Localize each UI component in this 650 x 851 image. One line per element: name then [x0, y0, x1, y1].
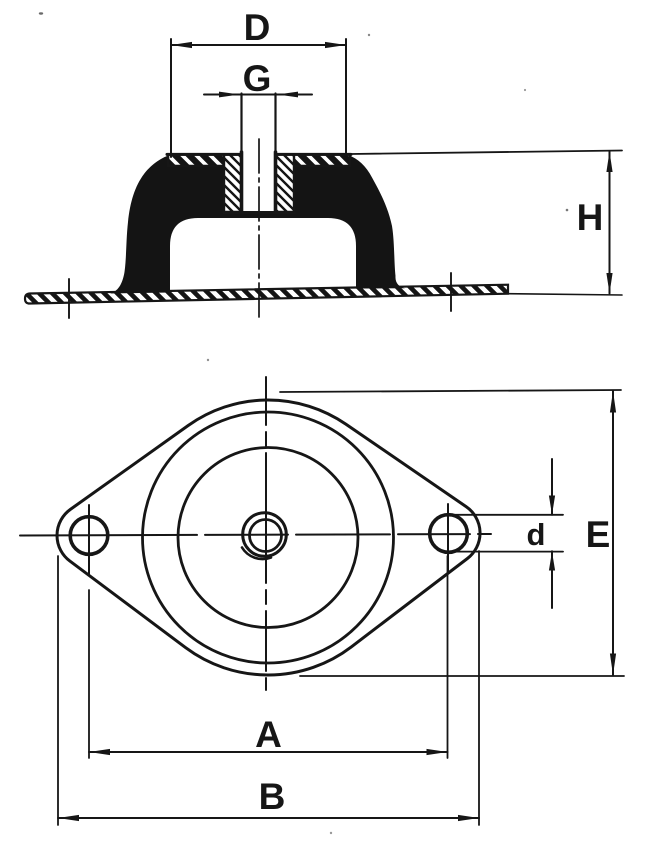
right bolt centerline (section)	[450, 273, 452, 311]
bushing bottom line	[224, 211, 294, 214]
dimension H: arrow up	[606, 152, 612, 173]
rubber body (black bell, section)	[110, 155, 405, 294]
svg-text:B: B	[259, 776, 286, 817]
central boss outer circle	[243, 513, 287, 557]
left bolt hole	[70, 517, 108, 555]
dimension B: line	[58, 817, 479, 819]
right bolt hole	[430, 515, 468, 553]
dimension G: arrow right (outside, pointing left)	[278, 92, 299, 98]
dimension A: line	[89, 751, 448, 753]
dimension E: bottom extension line	[300, 675, 624, 677]
dimension d: lower line + arrow up	[551, 551, 553, 608]
dimension H: top extension line	[351, 151, 622, 155]
dimension A: arrow left	[89, 749, 110, 755]
flange plate (hatched strip)	[25, 285, 508, 304]
scan speck 2	[368, 34, 370, 36]
section centerline	[258, 139, 260, 322]
inner circle (r=90)	[178, 448, 358, 628]
horizontal centerline (plan)	[20, 534, 491, 536]
plate top line (right of bore)	[276, 153, 352, 156]
plate top line (left of bore)	[167, 153, 242, 156]
dimension E: line	[612, 391, 614, 675]
plan outline: ears + tangent lines + big arcs	[57, 400, 480, 675]
boss lower double-strike arc	[242, 548, 271, 560]
dimension H: line	[609, 152, 611, 294]
bushing bore (white hole)	[243, 153, 274, 212]
top steel plate (hatched)	[168, 155, 350, 167]
svg-text:d: d	[527, 517, 546, 552]
dimension D: arrow right	[325, 42, 346, 48]
dimension B: arrow left	[58, 815, 79, 821]
bore right edge / G extension line	[274, 94, 276, 154]
dimension D: extension line right	[345, 39, 347, 153]
dimension B: arrow right	[458, 815, 479, 821]
scan speck 3	[330, 832, 332, 834]
central boss inner circle	[250, 520, 282, 552]
dimension G: arrow left (outside, pointing right)	[219, 92, 240, 98]
dimension E: arrow up	[610, 391, 616, 413]
dimension d: upper line + arrow down	[551, 459, 553, 515]
dimension G: line	[204, 94, 312, 96]
svg-text:D: D	[244, 7, 271, 48]
svg-text:A: A	[255, 714, 282, 755]
scan speck 0	[39, 12, 43, 14]
dimension D: arrow left	[171, 42, 192, 48]
dimension B: extension line right	[478, 551, 480, 825]
dimension E: arrow down	[610, 654, 616, 676]
svg-text:G: G	[243, 58, 272, 99]
right bolt vertical centerline	[447, 504, 449, 572]
left bolt centerline (section)	[68, 279, 70, 318]
ring circle (r=125.5)	[143, 412, 394, 663]
scan speck 1	[566, 209, 569, 212]
dimension D: line	[171, 44, 346, 46]
dimension E: top extension line	[280, 390, 621, 392]
dimension A: extension line right	[447, 556, 449, 758]
dimension d: bottom extension line	[447, 551, 563, 553]
threaded bushing (hatched block)	[224, 155, 294, 213]
scan speck 4	[524, 89, 526, 91]
dimension A: extension line left	[88, 590, 90, 758]
svg-text:E: E	[586, 514, 611, 555]
dimension H: arrow down	[606, 273, 612, 294]
scan speck 5	[207, 359, 209, 361]
svg-text:H: H	[577, 197, 604, 238]
vertical centerline (plan)	[265, 377, 267, 690]
dimension A: arrow right	[427, 749, 448, 755]
bore left edge / G extension line	[240, 94, 242, 154]
flange bottom extension line to H	[508, 294, 622, 295]
left bolt vertical centerline	[88, 505, 90, 574]
dimension d: top extension line	[444, 514, 563, 516]
dimension D: extension line left	[170, 39, 172, 157]
dimension B: extension line left	[57, 556, 59, 825]
